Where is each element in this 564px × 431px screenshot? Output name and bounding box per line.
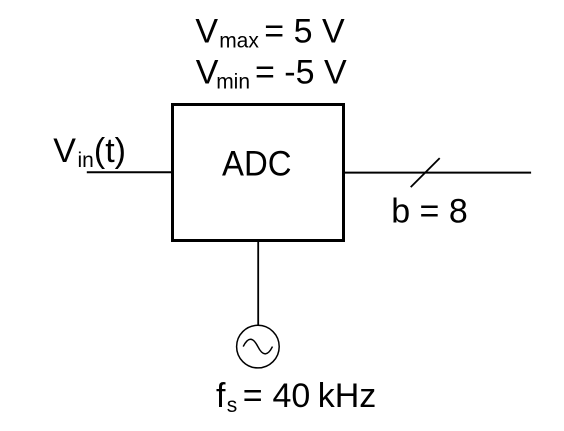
- ADC block U1: [173, 105, 344, 241]
- bus width slash: [411, 158, 440, 187]
- wire clock: [257, 241, 259, 326]
- clock source oscillator: [237, 325, 280, 368]
- wire input: [87, 171, 172, 173]
- svg-text:Vmin= -5 V: Vmin= -5 V: [196, 54, 347, 94]
- svg-text:Vmax= 5 V: Vmax= 5 V: [195, 13, 345, 53]
- svg-text:ADC: ADC: [222, 145, 292, 184]
- wire output bus: [344, 172, 531, 174]
- svg-text:b = 8: b = 8: [391, 193, 468, 231]
- sine symbol: [243, 339, 272, 354]
